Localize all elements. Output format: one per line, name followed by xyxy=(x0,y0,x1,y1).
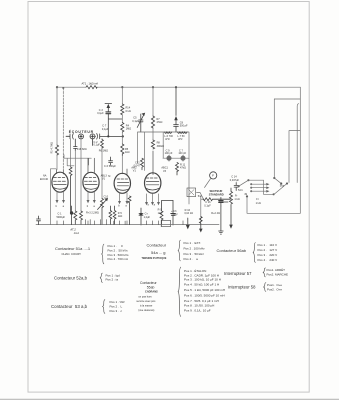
svg-text:Pos 4 . 50 kΩ, 100 µF 1 H: Pos 4 . 50 kΩ, 100 µF 1 H xyxy=(184,283,219,287)
svg-text:service avec pos: service avec pos xyxy=(136,299,156,303)
resistor R16 pair xyxy=(109,206,112,225)
label R11 xyxy=(180,163,186,169)
label C5 xyxy=(132,117,139,123)
svg-text:Pos 2 . 127 V: Pos 2 . 127 V xyxy=(258,248,278,252)
svg-text:a: a xyxy=(63,205,65,208)
svg-text:Interrupteur 58: Interrupteur 58 xyxy=(228,284,256,289)
ground mains xyxy=(219,206,224,234)
wire right vertical rail xyxy=(299,87,301,213)
resistor R3 xyxy=(80,211,83,225)
svg-text:V3: V3 xyxy=(163,170,167,173)
capacitor C4 xyxy=(74,139,78,151)
bus ticks xyxy=(57,221,183,225)
svg-text:1 kΩ: 1 kΩ xyxy=(256,202,261,205)
resistor AT1 on top bus xyxy=(86,86,97,89)
label C1 xyxy=(57,213,66,219)
switch 56a arm xyxy=(274,178,282,184)
svg-text:3,16 1Ω: 3,16 1Ω xyxy=(184,212,193,215)
label 56a xyxy=(280,184,285,187)
svg-text:0,1µF: 0,1µF xyxy=(204,204,211,207)
label R12 xyxy=(211,212,220,215)
svg-text:Pos 1 . EXT.: Pos 1 . EXT. xyxy=(184,241,202,245)
jack plug left xyxy=(66,134,73,140)
svg-text:Pos 8 . 10./50. 100 µH: Pos 8 . 10./50. 100 µH xyxy=(184,303,214,307)
brace 56ab xyxy=(253,243,256,263)
trimmer C7 xyxy=(181,155,185,161)
svg-text:1kΩ: 1kΩ xyxy=(118,215,123,218)
label Fr2 xyxy=(256,198,261,205)
svg-text:R1 4,7MΩ: R1 4,7MΩ xyxy=(50,142,53,153)
svg-text:CADRANS: CADRANS xyxy=(145,289,158,293)
table 54a positions xyxy=(184,241,206,261)
table contacteur 52ab title xyxy=(54,275,88,280)
jack plug right xyxy=(95,134,100,140)
label pins V2 xyxy=(87,205,96,208)
wire left rail V1 grid xyxy=(56,87,58,169)
label V1 type xyxy=(40,175,49,181)
svg-text:0,1µF: 0,1µF xyxy=(132,120,139,123)
oscillator box xyxy=(138,132,190,204)
svg-text:b: b xyxy=(56,205,58,208)
brace 53ab xyxy=(103,300,106,314)
svg-text:Pos 1 . %R: Pos 1 . %R xyxy=(110,300,126,304)
wire L rail x289 xyxy=(289,131,300,183)
arrow line 3 xyxy=(251,190,269,192)
wire jack row to rail xyxy=(100,136,124,137)
svg-text:Contacteur 51a ....1: Contacteur 51a ....1 xyxy=(55,246,91,251)
label AT1 xyxy=(82,81,99,85)
label R14 xyxy=(126,107,131,113)
capacitor C13 electrolytic xyxy=(171,201,176,226)
svg-text:Pos1. ARRÊT: Pos1. ARRÊT xyxy=(267,267,286,272)
resistor R7 xyxy=(151,116,154,128)
svg-text:a: a xyxy=(125,205,127,208)
svg-text:Pos 4 . 240 V: Pos 4 . 240 V xyxy=(258,258,278,262)
svg-text:R6 1MΩ: R6 1MΩ xyxy=(99,149,108,152)
brace 57 xyxy=(263,268,266,277)
svg-text:1kΩ: 1kΩ xyxy=(158,212,163,215)
label ECOUTEUR xyxy=(69,129,94,134)
svg-text:M: M xyxy=(108,175,110,178)
tube V4 xyxy=(145,151,161,193)
svg-text:6 kΩ: 6 kΩ xyxy=(126,110,131,113)
capacitor C5 trimmer xyxy=(137,113,144,132)
svg-text:ECC40: ECC40 xyxy=(40,178,49,181)
trimmer C9 xyxy=(167,155,171,161)
table interrupteur 57 xyxy=(224,271,252,276)
label C14 xyxy=(230,176,240,182)
label 54b xyxy=(238,189,243,192)
wire 54b to node xyxy=(248,180,274,195)
wire rail x274 xyxy=(274,99,276,179)
svg-text:V1: V1 xyxy=(102,178,106,181)
svg-text:0,1µF: 0,1µF xyxy=(97,112,104,115)
svg-text:0,047µF: 0,047µF xyxy=(230,179,240,182)
wire inside box xyxy=(163,157,189,159)
svg-text:Pos 3 . 100 kΩ, 10 µF 10 H: Pos 3 . 100 kΩ, 10 µF 10 H xyxy=(184,277,221,281)
wire 54c down xyxy=(201,197,203,217)
svg-text:AT1 : 1kΩ/mA: AT1 : 1kΩ/mA xyxy=(82,81,99,85)
label R7 xyxy=(157,118,163,124)
terminal box xyxy=(161,220,170,226)
svg-text:1 kΩ: 1 kΩ xyxy=(234,198,239,201)
arrow line 1 xyxy=(251,183,269,185)
tube V4 cathode pins xyxy=(146,194,160,205)
label C13 xyxy=(171,210,178,216)
svg-text:F: F xyxy=(212,174,214,178)
label V3 type xyxy=(108,166,137,178)
svg-text:SECTEUR: SECTEUR xyxy=(210,189,223,193)
switch 54b xyxy=(238,179,249,187)
jack circle 2 xyxy=(90,134,95,139)
svg-text:1MΩ: 1MΩ xyxy=(126,128,131,131)
label C12 xyxy=(134,161,141,167)
svg-text:Pos 3 . 50 kHz: Pos 3 . 50 kHz xyxy=(184,252,205,256)
svg-text:STANDARD: STANDARD xyxy=(209,192,224,196)
label R8 xyxy=(157,142,164,148)
table contacteur 53ab title xyxy=(51,304,88,309)
svg-text:Pos 4 . a: Pos 4 . a xyxy=(184,257,199,261)
tube V3 xyxy=(114,169,130,193)
label C7 xyxy=(178,149,186,155)
wire bottom right return xyxy=(246,196,300,214)
label R5 xyxy=(125,148,130,154)
label Fr xyxy=(234,195,239,201)
brace 58 xyxy=(264,283,267,292)
fuse F xyxy=(210,172,217,179)
label F xyxy=(212,174,214,178)
svg-text:5000µF: 5000µF xyxy=(57,216,66,219)
svg-text:Pos 2 . 100 kHz: Pos 2 . 100 kHz xyxy=(184,247,206,251)
wire 54c to mains row xyxy=(197,193,205,201)
label C9 xyxy=(165,149,173,155)
resistor mains dropper xyxy=(203,198,231,201)
svg-text:Pos 9 . 0,1/L. 10 µF: Pos 9 . 0,1/L. 10 µF xyxy=(184,308,211,312)
potentiometer P1 xyxy=(98,199,108,225)
label R3 value xyxy=(86,212,99,215)
svg-text:R+3 2,2MΩ: R+3 2,2MΩ xyxy=(86,212,99,215)
label R15 xyxy=(126,124,131,130)
resistor R1 xyxy=(55,145,58,155)
resistor R4 xyxy=(121,123,124,132)
svg-text:b: b xyxy=(87,205,89,208)
svg-text:1,2µF: 1,2µF xyxy=(144,216,151,219)
svg-text:0,1µF: 0,1µF xyxy=(94,144,101,147)
brace 54a xyxy=(178,240,181,261)
wire rail x123 xyxy=(121,87,123,174)
capacitor C6 xyxy=(109,157,113,165)
svg-text:Contacteur 53 a,b: Contacteur 53 a,b xyxy=(51,304,88,309)
table interrupteur 58 xyxy=(228,284,256,289)
svg-text:1kΩ: 1kΩ xyxy=(125,151,130,154)
svg-text:390kΩ: 390kΩ xyxy=(157,145,164,148)
svg-text:Interrupteur 57: Interrupteur 57 xyxy=(224,271,252,276)
svg-text:Pos2. O+e: Pos2. O+e xyxy=(267,288,282,292)
wire inner rail x297 xyxy=(297,104,298,183)
svg-text:1mA: 1mA xyxy=(74,231,80,235)
svg-text:Pos 1 . 110 V: Pos 1 . 110 V xyxy=(258,243,277,247)
switch 56a arm 2 xyxy=(274,183,288,195)
label R1 vertical xyxy=(50,142,53,153)
svg-text:ÉCOUTEUR: ÉCOUTEUR xyxy=(69,129,94,134)
table contacteur 55ab block xyxy=(136,281,158,312)
wire fuse to switch 54c xyxy=(205,179,211,188)
resistor R8 xyxy=(151,140,154,149)
resistor R14 xyxy=(121,104,124,115)
ground at bus end xyxy=(186,218,189,228)
label L6 xyxy=(164,135,173,141)
svg-text:Contacteur: Contacteur xyxy=(147,243,167,248)
svg-text:Contacteur 52a,b: Contacteur 52a,b xyxy=(54,275,88,280)
label pins V1 xyxy=(56,205,65,208)
junction dot xyxy=(70,206,73,225)
svg-text:TENSION D'ATTAQUE: TENSION D'ATTAQUE xyxy=(142,257,167,260)
svg-text:C10: C10 xyxy=(104,195,109,198)
svg-text:Pos 2 . L: Pos 2 . L xyxy=(110,304,123,308)
svg-text:V1: V1 xyxy=(133,170,137,173)
svg-text:Pos 5 . 1 kΩ, 5000 pF 100 mH: Pos 5 . 1 kΩ, 5000 pF 100 mH xyxy=(184,288,225,292)
tube V2 xyxy=(83,158,99,192)
svg-text:Fr: Fr xyxy=(256,198,259,201)
resistor R6a xyxy=(101,140,104,149)
bus ticks extra xyxy=(86,220,126,225)
switch 54c box xyxy=(187,188,196,197)
svg-text:500 pF: 500 pF xyxy=(180,125,188,128)
table 56ab positions xyxy=(258,243,278,262)
svg-text:47kΩ: 47kΩ xyxy=(180,166,186,169)
svg-text:Pos1. O+e: Pos1. O+e xyxy=(267,283,282,287)
wire rail x102 xyxy=(101,139,103,199)
table 57 positions xyxy=(267,267,289,276)
wire rail x81 xyxy=(80,139,82,211)
svg-text:à la masse: à la masse xyxy=(140,303,153,307)
brace 51a xyxy=(102,244,105,264)
capacitor C8 with arrow xyxy=(174,87,179,132)
svg-text:C·6 500µF: C·6 500µF xyxy=(104,165,116,168)
svg-text:F16 82Ω: F16 82Ω xyxy=(77,148,87,151)
table 58 positions xyxy=(267,283,282,291)
capacitor C1 input xyxy=(37,216,41,225)
svg-text:47kΩ: 47kΩ xyxy=(157,121,163,124)
label C10 xyxy=(104,195,109,198)
capacitor C15 xyxy=(139,208,143,225)
resistor R5 xyxy=(121,144,124,156)
table long position list xyxy=(184,268,225,312)
svg-text:CHAN. COURT.: CHAN. COURT. xyxy=(62,252,82,256)
svg-text:Pos 3 . 220 V: Pos 3 . 220 V xyxy=(258,253,278,257)
svg-text:Pos2. MARCHE: Pos2. MARCHE xyxy=(267,273,289,277)
label pins V3 xyxy=(118,205,127,208)
svg-text:b: b xyxy=(118,205,120,208)
box around V1 xyxy=(51,169,57,225)
wire rail x70.6 xyxy=(70,139,72,167)
coil L7 xyxy=(178,132,188,133)
arrow line 2 xyxy=(251,187,269,189)
bus junction dots xyxy=(56,86,177,88)
resistor R17 pair xyxy=(113,206,116,225)
label R16 value xyxy=(118,212,123,218)
wire rail x153 xyxy=(152,87,154,140)
resistor R9 xyxy=(160,201,173,226)
svg-text:R+2 4Ω: R+2 4Ω xyxy=(211,212,220,215)
bottom bus xyxy=(36,224,219,226)
resistor under V3 xyxy=(128,196,131,225)
table 53ab positions xyxy=(110,300,126,313)
svg-text:un pas hors: un pas hors xyxy=(138,294,152,298)
svg-text:100 pF: 100 pF xyxy=(178,152,186,155)
resistor R11 xyxy=(176,163,179,176)
capacitor mains C16 xyxy=(219,197,223,206)
svg-text:Pos 2 : ia: Pos 2 : ia xyxy=(106,278,119,282)
svg-text:Pos 1 . ÉTALON: Pos 1 . ÉTALON xyxy=(184,268,206,273)
svg-text:kHz: kHz xyxy=(165,138,170,141)
wire dashed rail xyxy=(62,88,64,170)
svg-text:(vue dessous): (vue dessous) xyxy=(138,308,154,312)
table contacteur 51a title xyxy=(55,246,91,256)
svg-text:54a ... g: 54a ... g xyxy=(151,250,165,255)
label R6 xyxy=(99,149,108,152)
svg-text:Pos 7 . 50/5. 0,1 µF 1 mH: Pos 7 . 50/5. 0,1 µF 1 mH xyxy=(184,299,219,303)
svg-text:kHz: kHz xyxy=(178,138,183,141)
svg-text:Pos 4 . 700 mA: Pos 4 . 700 mA xyxy=(108,257,129,261)
capacitor C3 with arrow xyxy=(105,104,122,137)
svg-text:0,1µF: 0,1µF xyxy=(102,128,109,131)
label SECTEUR xyxy=(209,189,224,197)
svg-text:25µF: 25µF xyxy=(172,213,178,216)
capacitor C12 xyxy=(141,158,144,170)
brace 52ab xyxy=(100,273,103,283)
label C16 xyxy=(204,201,211,207)
svg-text:b: b xyxy=(148,204,150,207)
wire right inner horizontal xyxy=(274,98,300,100)
svg-text:Pos 3 . c: Pos 3 . c xyxy=(110,309,123,313)
svg-text:a: a xyxy=(154,204,156,207)
label R16b xyxy=(184,209,193,215)
table contacteur 54a title xyxy=(142,243,167,260)
wire coil down arrow xyxy=(230,205,232,228)
wire rail x75 xyxy=(74,151,76,211)
capacitor C14 xyxy=(234,183,238,191)
svg-text:100 pF: 100 pF xyxy=(165,152,173,155)
wire jack2 drop xyxy=(92,139,94,146)
coil L6 xyxy=(165,132,172,133)
table 51a positions xyxy=(108,244,130,261)
svg-text:54 b: 54 b xyxy=(238,189,243,192)
resistor on 54c drop xyxy=(199,217,202,232)
label C3 xyxy=(97,109,104,115)
svg-text:Contacteur 56ab: Contacteur 56ab xyxy=(217,248,247,253)
label C15 xyxy=(144,213,151,219)
label C2 xyxy=(94,141,101,147)
label V4 type xyxy=(161,167,168,173)
tube V1 xyxy=(52,170,68,193)
table 52ab positions xyxy=(106,273,121,281)
coil Fr xyxy=(219,188,233,204)
label R16 xyxy=(77,148,87,151)
table contacteur 56ab title xyxy=(217,248,247,253)
svg-text:a: a xyxy=(93,205,95,208)
label R10 xyxy=(158,209,163,215)
scanner bottom edge xyxy=(0,398,339,400)
svg-text:56a: 56a xyxy=(280,184,285,187)
jack circle 1 xyxy=(79,134,84,139)
svg-text:Pos 6 . 100/5. 5000 pF 10 mH: Pos 6 . 100/5. 5000 pF 10 mH xyxy=(184,294,225,298)
resistor R2 xyxy=(74,211,77,225)
label 49 xyxy=(244,193,247,196)
tube V2 cathode pins xyxy=(87,192,95,203)
label C8 xyxy=(180,121,188,127)
label C4 xyxy=(102,125,109,131)
label L7 xyxy=(177,135,185,141)
label C6 xyxy=(104,165,116,168)
label 54c xyxy=(198,195,203,198)
tube V3 cathode pins xyxy=(119,193,129,204)
svg-text:55ab: 55ab xyxy=(147,285,155,289)
wire interstage y158 xyxy=(64,155,91,166)
tube V1 cathode pins xyxy=(56,192,65,203)
label V2 type xyxy=(101,174,108,180)
resistor R2a xyxy=(69,167,72,213)
label AT2 xyxy=(69,228,79,235)
brace 55 long list xyxy=(178,267,181,317)
label pins V4 xyxy=(148,204,156,207)
wire top supply bus xyxy=(57,86,300,88)
